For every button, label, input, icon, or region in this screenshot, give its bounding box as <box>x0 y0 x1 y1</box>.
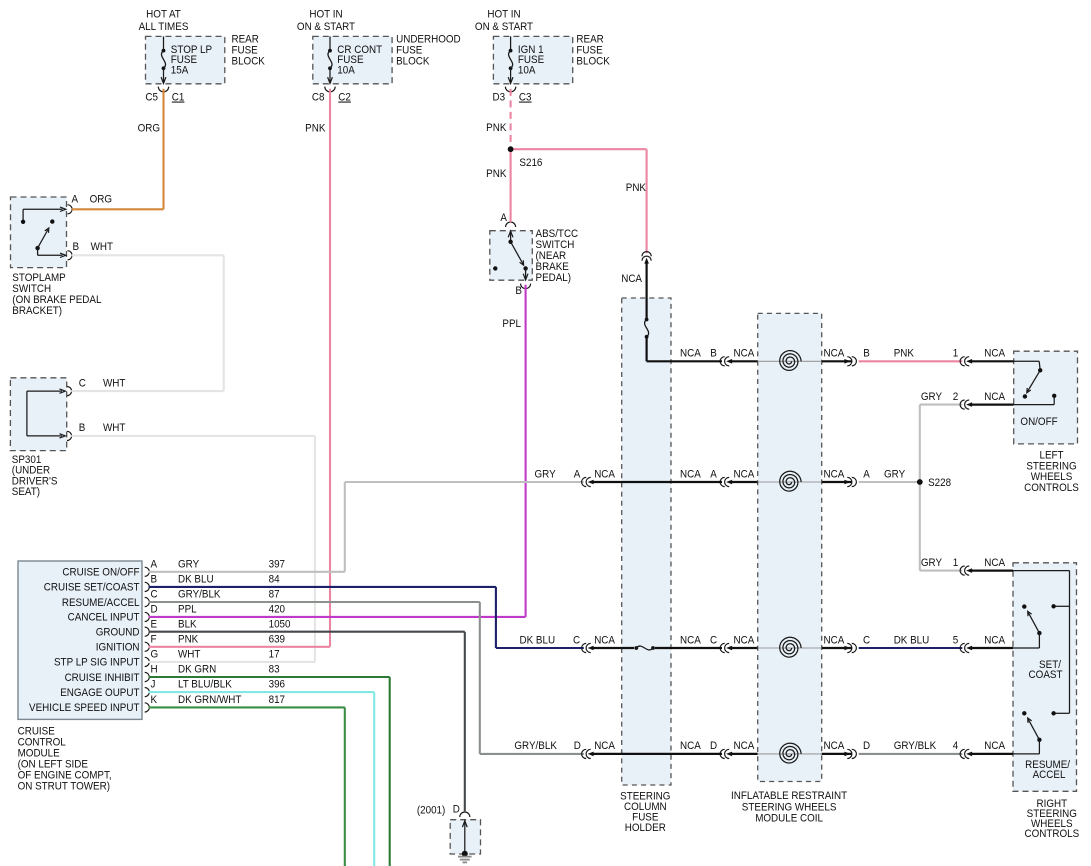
svg-text:NCA: NCA <box>824 348 845 359</box>
svg-text:ABS/TCC: ABS/TCC <box>536 229 579 240</box>
svg-text:OF ENGINE COMPT,: OF ENGINE COMPT, <box>18 770 112 781</box>
svg-text:D: D <box>453 804 460 815</box>
svg-text:DK GRN/WHT: DK GRN/WHT <box>178 695 241 706</box>
svg-text:D: D <box>151 604 158 615</box>
svg-text:397: 397 <box>269 559 286 570</box>
svg-text:REAR: REAR <box>232 34 259 45</box>
svg-text:NCA: NCA <box>734 741 755 752</box>
svg-text:NCA: NCA <box>734 348 755 359</box>
svg-text:GRY: GRY <box>921 392 942 403</box>
svg-text:D: D <box>574 741 581 752</box>
svg-text:NCA: NCA <box>594 635 615 646</box>
svg-text:C: C <box>79 378 86 389</box>
svg-text:A: A <box>574 469 581 480</box>
svg-text:B: B <box>863 348 870 359</box>
svg-text:FUSE: FUSE <box>232 45 258 56</box>
svg-text:H: H <box>151 664 158 675</box>
svg-text:DK BLU: DK BLU <box>520 635 556 646</box>
svg-text:C: C <box>863 635 870 646</box>
svg-text:396: 396 <box>269 679 286 690</box>
svg-text:HOT IN: HOT IN <box>487 9 520 20</box>
svg-text:GROUND: GROUND <box>96 627 140 638</box>
svg-text:CRUISE SET/COAST: CRUISE SET/COAST <box>44 582 140 593</box>
svg-text:83: 83 <box>269 664 280 675</box>
svg-text:CANCEL INPUT: CANCEL INPUT <box>68 612 140 623</box>
svg-text:B: B <box>515 286 522 297</box>
svg-text:ON & START: ON & START <box>297 22 355 33</box>
svg-text:UNDERHOOD: UNDERHOOD <box>396 34 461 45</box>
svg-text:15A: 15A <box>171 65 189 76</box>
svg-text:WHT: WHT <box>103 423 125 434</box>
svg-text:CRUISE: CRUISE <box>18 726 55 737</box>
svg-text:NCA: NCA <box>984 558 1005 569</box>
svg-text:CONTROLS: CONTROLS <box>1024 483 1079 494</box>
svg-text:DK BLU: DK BLU <box>178 574 214 585</box>
svg-text:VEHICLE SPEED INPUT: VEHICLE SPEED INPUT <box>29 703 139 714</box>
svg-text:ENGAGE OUPUT: ENGAGE OUPUT <box>60 688 139 699</box>
svg-text:SP301: SP301 <box>12 455 42 466</box>
svg-text:LEFT: LEFT <box>1039 450 1063 461</box>
svg-text:B: B <box>710 348 717 359</box>
svg-text:MODULE: MODULE <box>18 748 60 759</box>
svg-text:B: B <box>151 574 158 585</box>
svg-text:ALL TIMES: ALL TIMES <box>139 22 189 33</box>
svg-text:A: A <box>710 469 717 480</box>
svg-text:C2: C2 <box>338 92 351 103</box>
svg-text:10A: 10A <box>518 65 536 76</box>
svg-text:PNK: PNK <box>486 123 506 134</box>
svg-text:D: D <box>863 741 870 752</box>
svg-text:5: 5 <box>953 635 959 646</box>
svg-text:639: 639 <box>269 634 286 645</box>
svg-text:LT BLU/BLK: LT BLU/BLK <box>178 679 232 690</box>
svg-text:BRACKET): BRACKET) <box>12 306 62 317</box>
svg-text:NCA: NCA <box>680 635 701 646</box>
svg-text:NCA: NCA <box>984 635 1005 646</box>
svg-text:420: 420 <box>269 604 286 615</box>
svg-text:BLOCK: BLOCK <box>396 56 430 67</box>
svg-text:CONTROLS: CONTROLS <box>1024 829 1079 840</box>
svg-text:NCA: NCA <box>824 469 845 480</box>
svg-text:NCA: NCA <box>680 469 701 480</box>
svg-text:BLOCK: BLOCK <box>576 56 610 67</box>
svg-text:C5: C5 <box>145 92 158 103</box>
svg-text:INFLATABLE RESTRAINT: INFLATABLE RESTRAINT <box>731 791 847 802</box>
svg-text:E: E <box>151 619 158 630</box>
svg-text:HOT AT: HOT AT <box>146 9 181 20</box>
svg-text:(ON LEFT SIDE: (ON LEFT SIDE <box>18 759 89 770</box>
svg-text:NCA: NCA <box>734 635 755 646</box>
svg-text:FUSE: FUSE <box>396 45 422 56</box>
svg-text:NCA: NCA <box>594 469 615 480</box>
svg-text:F: F <box>151 634 157 645</box>
svg-text:SWITCH: SWITCH <box>12 284 51 295</box>
svg-text:(NEAR: (NEAR <box>536 251 567 262</box>
svg-text:C: C <box>710 635 717 646</box>
svg-text:WHT: WHT <box>91 242 113 253</box>
svg-text:817: 817 <box>269 695 286 706</box>
svg-text:4: 4 <box>953 741 959 752</box>
svg-text:RESUME/ACCEL: RESUME/ACCEL <box>62 598 140 609</box>
svg-text:S228: S228 <box>928 478 951 489</box>
svg-text:J: J <box>151 679 156 690</box>
svg-text:D3: D3 <box>493 92 506 103</box>
svg-text:GRY/BLK: GRY/BLK <box>178 589 221 600</box>
svg-text:SEAT): SEAT) <box>12 487 40 498</box>
svg-text:C8: C8 <box>312 92 325 103</box>
svg-text:CONTROL: CONTROL <box>18 737 66 748</box>
svg-text:ACCEL: ACCEL <box>1033 770 1066 781</box>
svg-text:A: A <box>500 213 507 224</box>
svg-text:BLOCK: BLOCK <box>232 56 266 67</box>
svg-text:NCA: NCA <box>984 741 1005 752</box>
svg-text:STOPLAMP: STOPLAMP <box>12 273 66 284</box>
svg-text:NCA: NCA <box>621 274 642 285</box>
svg-text:GRY: GRY <box>178 559 199 570</box>
svg-text:(ON BRAKE PEDAL: (ON BRAKE PEDAL <box>12 295 101 306</box>
svg-text:1050: 1050 <box>269 619 291 630</box>
svg-text:1: 1 <box>953 348 959 359</box>
svg-text:C: C <box>573 635 580 646</box>
svg-text:A: A <box>72 194 79 205</box>
svg-text:C3: C3 <box>519 92 532 103</box>
svg-text:NCA: NCA <box>680 348 701 359</box>
svg-text:ON STRUT TOWER): ON STRUT TOWER) <box>18 781 110 792</box>
svg-text:REAR: REAR <box>576 34 603 45</box>
svg-text:G: G <box>151 649 159 660</box>
svg-text:DRIVER'S: DRIVER'S <box>12 476 58 487</box>
svg-text:ON & START: ON & START <box>475 22 533 33</box>
svg-text:B: B <box>79 423 86 434</box>
svg-text:CRUISE INHIBIT: CRUISE INHIBIT <box>65 673 140 684</box>
svg-text:NCA: NCA <box>680 741 701 752</box>
svg-text:C: C <box>151 589 158 600</box>
svg-text:NCA: NCA <box>734 469 755 480</box>
svg-text:A: A <box>863 469 870 480</box>
svg-text:K: K <box>151 695 158 706</box>
svg-text:WHEELS: WHEELS <box>1031 472 1073 483</box>
svg-text:PNK: PNK <box>626 183 646 194</box>
svg-text:STEERING WHEELS: STEERING WHEELS <box>742 802 837 813</box>
svg-text:ORG: ORG <box>90 194 112 205</box>
svg-text:ON/OFF: ON/OFF <box>1020 417 1057 428</box>
svg-text:NCA: NCA <box>824 635 845 646</box>
svg-text:1: 1 <box>953 558 959 569</box>
svg-text:GRY: GRY <box>535 469 556 480</box>
svg-text:PPL: PPL <box>502 319 521 330</box>
svg-text:S216: S216 <box>519 158 542 169</box>
svg-text:FUSE: FUSE <box>576 45 602 56</box>
svg-text:MODULE COIL: MODULE COIL <box>755 813 823 824</box>
svg-text:COAST: COAST <box>1029 670 1063 681</box>
svg-text:ORG: ORG <box>138 123 160 134</box>
svg-text:NCA: NCA <box>984 348 1005 359</box>
svg-text:PNK: PNK <box>486 169 506 180</box>
svg-text:GRY: GRY <box>884 469 905 480</box>
svg-text:GRY: GRY <box>921 558 942 569</box>
svg-text:(2001): (2001) <box>417 805 445 816</box>
svg-text:DK GRN: DK GRN <box>178 664 216 675</box>
svg-text:STP LP SIG INPUT: STP LP SIG INPUT <box>54 657 140 668</box>
svg-text:PNK: PNK <box>894 348 914 359</box>
svg-text:A: A <box>151 559 158 570</box>
svg-text:IGNITION: IGNITION <box>96 642 140 653</box>
svg-text:HOT IN: HOT IN <box>309 9 342 20</box>
svg-text:PPL: PPL <box>178 604 197 615</box>
svg-text:DK BLU: DK BLU <box>894 635 930 646</box>
svg-text:PNK: PNK <box>178 634 198 645</box>
svg-text:NCA: NCA <box>824 741 845 752</box>
svg-text:WHT: WHT <box>103 378 125 389</box>
svg-text:10A: 10A <box>337 65 355 76</box>
svg-text:87: 87 <box>269 589 280 600</box>
svg-text:NCA: NCA <box>984 392 1005 403</box>
svg-text:GRY/BLK: GRY/BLK <box>514 741 557 752</box>
svg-text:GRY/BLK: GRY/BLK <box>894 741 937 752</box>
svg-text:2: 2 <box>953 392 959 403</box>
svg-text:B: B <box>73 242 80 253</box>
svg-text:NCA: NCA <box>594 741 615 752</box>
svg-text:SWITCH: SWITCH <box>536 240 575 251</box>
svg-text:84: 84 <box>269 574 280 585</box>
svg-text:C1: C1 <box>172 92 185 103</box>
svg-text:D: D <box>710 741 717 752</box>
svg-text:HOLDER: HOLDER <box>625 823 666 834</box>
svg-text:BRAKE: BRAKE <box>536 262 570 273</box>
svg-text:(UNDER: (UNDER <box>12 465 50 476</box>
svg-text:WHT: WHT <box>178 649 200 660</box>
svg-text:PEDAL): PEDAL) <box>536 273 572 284</box>
svg-text:17: 17 <box>269 649 280 660</box>
svg-text:STEERING: STEERING <box>1026 461 1076 472</box>
svg-text:CRUISE ON/OFF: CRUISE ON/OFF <box>62 567 139 578</box>
svg-text:BLK: BLK <box>178 619 197 630</box>
svg-text:PNK: PNK <box>305 123 325 134</box>
